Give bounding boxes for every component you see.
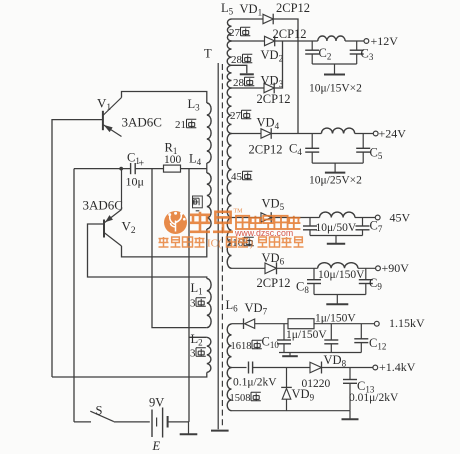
wire VD7 to 1.15kV network (255, 323, 288, 325)
terminal +1.4kV (373, 365, 378, 370)
diode VD7 (243, 318, 245, 329)
svg-text:2CP12: 2CP12 (249, 143, 283, 157)
wire coil to terminal +24V (355, 133, 374, 135)
capacitor C12 (360, 324, 362, 339)
svg-text:27: 27 (229, 27, 241, 39)
winding L6 (1618+1508 turns) (227, 324, 231, 368)
diode VD9 (shunt) (286, 368, 288, 388)
svg-text:1μ/150V: 1μ/150V (315, 313, 356, 325)
ground (+24V filter) (334, 163, 336, 173)
diode VD4 (232, 133, 262, 135)
svg-text:1μ/150V: 1μ/150V (286, 329, 327, 341)
wire HV common bottom rail (232, 410, 351, 412)
svg-text:10μ/150V: 10μ/150V (318, 269, 365, 281)
wire L2 top (189, 336, 207, 338)
center tap ground wire (232, 65, 247, 73)
diode VD5 (232, 217, 262, 219)
wire C6-C7 bottom rail (310, 235, 363, 237)
svg-text:S: S (96, 404, 103, 418)
wire coil to terminal +90V (358, 267, 376, 269)
ground (center tap) (240, 73, 254, 75)
wire VD6 output (+90V rail) (277, 267, 318, 269)
svg-text:+1.4kV: +1.4kV (379, 360, 416, 374)
svg-text:): ) (250, 238, 254, 250)
svg-text:10μ/50V: 10μ/50V (316, 222, 357, 234)
ground (+90V filter) (336, 295, 338, 305)
diode VD2 (232, 40, 265, 42)
svg-text:0.01μ/2kV: 0.01μ/2kV (349, 392, 399, 404)
transistor V2 (104, 210, 122, 247)
diode VD8 (310, 362, 322, 373)
wire VD2 output (+12V rail) (275, 40, 318, 42)
capacitor C13 (349, 368, 351, 380)
svg-text:21: 21 (175, 119, 186, 131)
ground (45V filter) (335, 236, 337, 244)
wire L1 bottom to C1-R1 node (152, 169, 207, 328)
inductor (+90V filter) (318, 263, 358, 269)
watermark logo and text (159, 209, 304, 250)
winding L2 (207, 337, 211, 372)
wire emitter row (node) (74, 168, 207, 170)
ground (core) (211, 430, 229, 432)
transformer core (dashed line) (221, 64, 223, 426)
capacitor C11 (330, 324, 332, 340)
wire C8-C9 bottom rail (314, 294, 366, 296)
label 1 turn (rotated, L4) (193, 196, 203, 211)
svg-text:3AD6C: 3AD6C (122, 115, 162, 130)
wire switch to battery (114, 421, 150, 423)
diode VD3 (232, 87, 265, 89)
wire battery rail (R1 right / L2 top / battery+) (188, 169, 190, 422)
svg-text:T: T (204, 47, 212, 61)
capacitor 0.1u/2kV (series) (248, 362, 250, 374)
svg-text:45: 45 (231, 171, 243, 183)
wire V2 emitter to emitter node (121, 169, 123, 210)
wire V2 base to L1 top (88, 224, 207, 279)
capacitor C4 (311, 134, 313, 149)
svg-text:1508: 1508 (230, 393, 251, 404)
wire coil to terminal 45V (355, 217, 375, 219)
svg-text:3AD6C: 3AD6C (83, 198, 123, 213)
wire 1.15kV bottom rail (279, 352, 361, 354)
svg-text:100: 100 (164, 154, 182, 166)
wire V1 base to left rail (52, 120, 103, 377)
wire VD5 output (45V rail) (271, 217, 319, 219)
svg-text:10μ: 10μ (126, 175, 144, 189)
inductor (45V filter) (320, 212, 355, 217)
svg-text:28: 28 (231, 54, 243, 66)
capacitor C5 (362, 134, 364, 149)
wire C4-C5 bottom rail (312, 162, 363, 164)
wire L6 top to VD7 (232, 323, 244, 325)
terminal +24V (373, 131, 378, 136)
svg-text:+: + (139, 159, 145, 170)
ground (battery) (188, 422, 190, 434)
inductor (+24V filter) (321, 128, 354, 133)
resistor R1 (164, 165, 181, 172)
svg-text:+12V: +12V (371, 34, 399, 48)
diode VD6 (232, 267, 266, 269)
ground (1.15kV filter) (289, 353, 291, 357)
winding L3 (207, 103, 211, 163)
terminal 1.15kV (374, 321, 379, 326)
transistor V1 (103, 98, 122, 137)
svg-text:2CP12: 2CP12 (257, 92, 291, 106)
svg-text:28: 28 (233, 77, 245, 89)
capacitor C6 (309, 218, 311, 227)
winding L1 (207, 279, 211, 328)
wire coupling cap to VD8 (253, 367, 310, 369)
wire VD1 to +24V rail (bus) (273, 19, 298, 134)
svg-text:45V: 45V (390, 211, 411, 225)
svg-text:3: 3 (190, 298, 196, 310)
svg-text:0.1μ/2kV: 0.1μ/2kV (233, 377, 277, 389)
wire VD3 to +12V rail (bus) (274, 41, 282, 88)
wire L6 mid tap to coupling cap (232, 367, 247, 369)
wire L2 bottom to V1 base rail (52, 372, 207, 377)
svg-text:IC(: IC( (207, 238, 222, 250)
wire emitter rail to switch (73, 169, 75, 422)
svg-text:3: 3 (190, 348, 196, 360)
svg-text:10μ/25V×2: 10μ/25V×2 (309, 175, 362, 187)
junction emitters (119, 167, 123, 171)
wire V2 collector to L4 bottom (122, 229, 207, 257)
inductor (+12V filter) (318, 36, 345, 41)
svg-text:27: 27 (230, 110, 242, 122)
wire 1.15kV rail (314, 323, 374, 325)
svg-text:9V: 9V (149, 396, 164, 410)
svg-text:+90V: +90V (382, 261, 410, 275)
svg-text:E: E (152, 439, 161, 453)
terminal +90V (376, 266, 381, 271)
ground (C13 / HV rail) (349, 411, 351, 420)
capacitor C7 (362, 218, 364, 227)
terminal +12V (364, 39, 369, 44)
battery E 9V (152, 408, 168, 438)
svg-text:2CP12: 2CP12 (257, 276, 291, 290)
svg-text:+24V: +24V (379, 127, 407, 141)
wire battery to ground rail (168, 421, 189, 423)
switch S (74, 421, 91, 423)
capacitor C1 (130, 163, 132, 174)
svg-text:TM: TM (234, 209, 244, 215)
winding L5 (27+28+28+27+45+116 turns) (227, 19, 231, 41)
transformer core (solid line) (217, 63, 219, 429)
wire L3 bottom to L4 top (206, 163, 208, 173)
capacitor C9 (365, 268, 367, 279)
svg-text:1618: 1618 (231, 341, 252, 352)
wire VD4 output (+24V rail) (271, 133, 321, 135)
wire V1 collector to L3 top (122, 92, 207, 104)
capacitor C10 (283, 324, 285, 340)
wire coil to terminal +12V (345, 40, 364, 42)
svg-text:1.15kV: 1.15kV (389, 316, 425, 330)
wire VD8 to terminal +1.4kV (322, 367, 373, 369)
svg-text:10μ/15V×2: 10μ/15V×2 (309, 83, 362, 95)
wire C2-C3 bottom rail (312, 63, 357, 65)
svg-text:2CP12: 2CP12 (276, 1, 310, 15)
capacitor C3 (356, 41, 358, 50)
diode VD1 (232, 18, 264, 20)
resistor (1u/150V block) (288, 319, 314, 329)
capacitor C8 (313, 268, 315, 279)
winding L4 (207, 173, 211, 229)
ground (+12V filter) (334, 64, 336, 75)
capacitor C2 (311, 41, 313, 50)
svg-text:2CP12: 2CP12 (273, 27, 307, 41)
terminal 45V (375, 215, 380, 220)
